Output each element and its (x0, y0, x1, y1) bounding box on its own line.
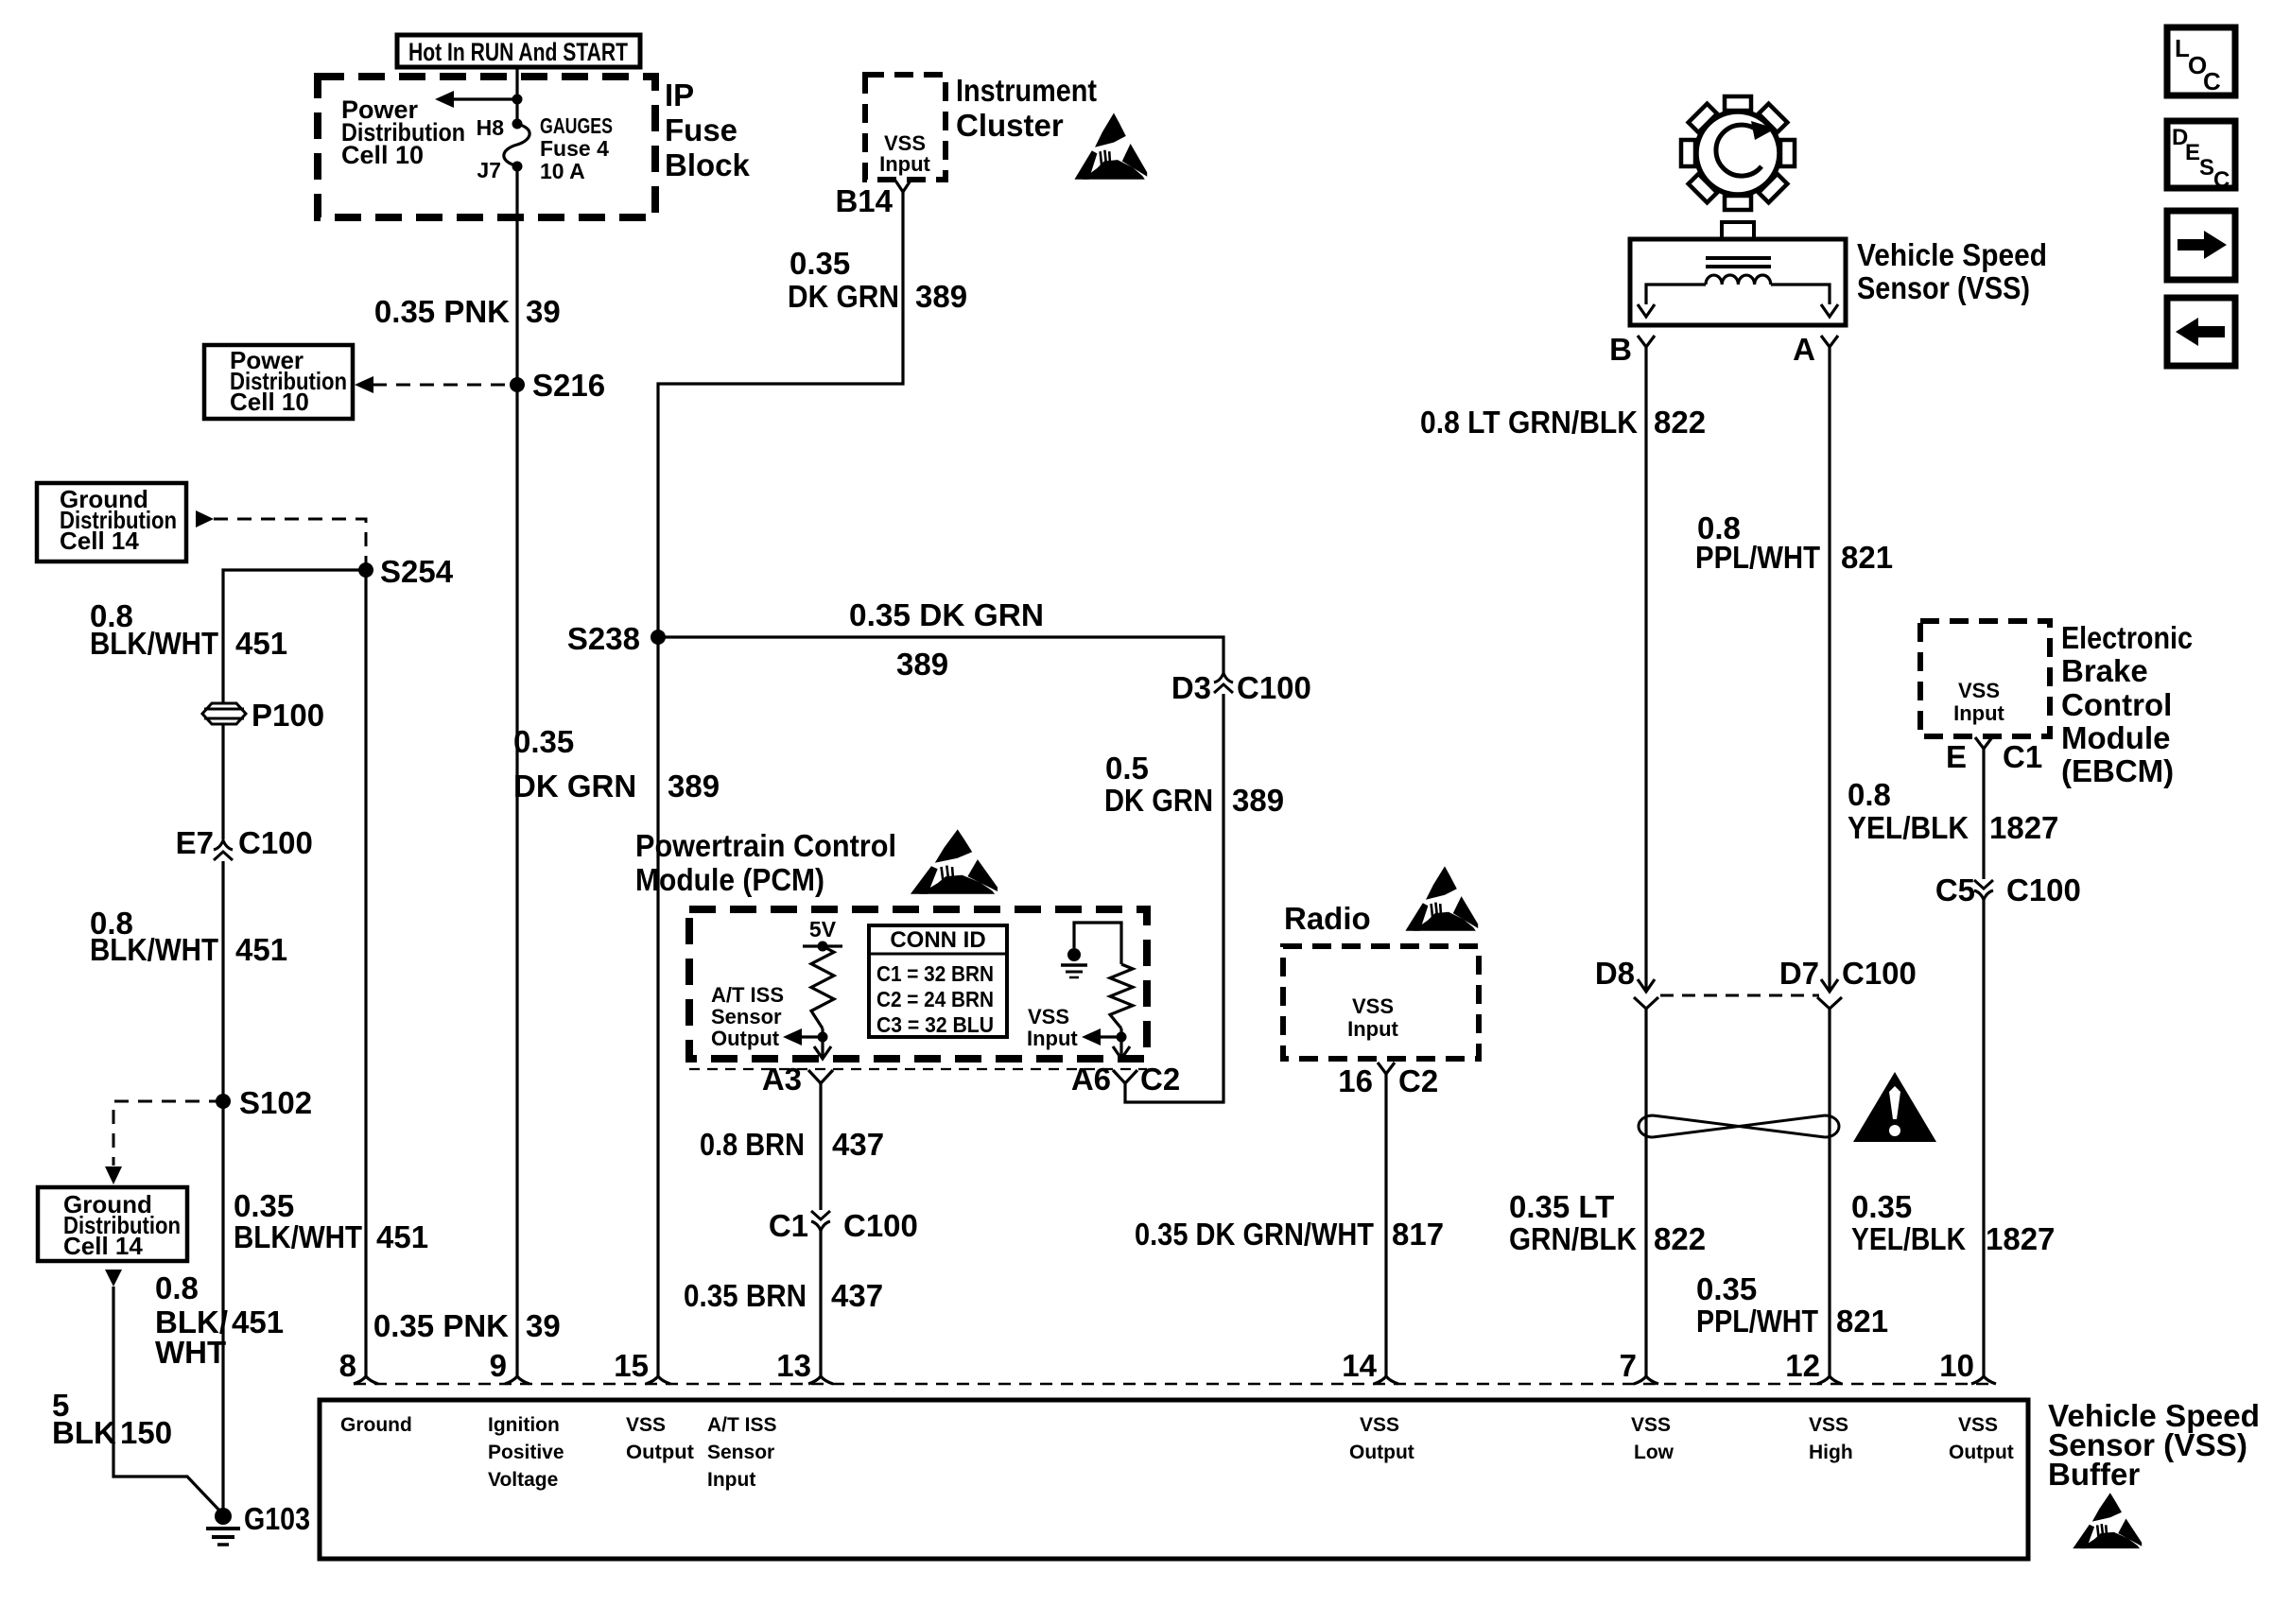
junction dot at fuse feed (512, 95, 523, 105)
pin A6 of PCM (1113, 1070, 1137, 1083)
reference box: Ground Distribution Cell 14 (upper) (37, 483, 186, 561)
svg-text:J7: J7 (477, 158, 501, 182)
wire and junction below pull-up (821, 1028, 824, 1058)
CONN ID box (869, 925, 1007, 1037)
wire 451: S254 down to buffer pin 8 (364, 570, 367, 1376)
svg-text:389: 389 (896, 647, 948, 682)
pin A of VSS (1821, 336, 1838, 347)
svg-text:C2: C2 (1398, 1063, 1438, 1098)
svg-text:D3: D3 (1171, 670, 1211, 705)
svg-text:822: 822 (1654, 1221, 1706, 1256)
wire 437 BRN: A3 to buffer pin 13 (819, 1083, 822, 1210)
svg-text:S254: S254 (380, 554, 454, 589)
svg-text:WHT: WHT (155, 1335, 226, 1370)
ESD symbol (PCM) (935, 829, 972, 862)
svg-text:437: 437 (832, 1127, 884, 1162)
svg-text:Input: Input (879, 152, 930, 176)
wire 0.5 DK GRN 389: D3 to PCM A6 (1125, 694, 1223, 1102)
svg-text:Input: Input (1347, 1017, 1398, 1041)
resistor (VSS input) (1110, 964, 1133, 1028)
svg-text:IP: IP (665, 78, 694, 112)
svg-text:Ignition: Ignition (488, 1414, 560, 1436)
svg-text:C5: C5 (1935, 872, 1975, 907)
VSS sensor core lines (1706, 256, 1771, 260)
svg-text:10: 10 (1939, 1348, 1974, 1383)
splice S238 (651, 630, 666, 645)
svg-text:Block: Block (665, 147, 751, 182)
reference box: Power Distribution Cell 10 (204, 345, 353, 419)
svg-text:12: 12 (1785, 1348, 1820, 1383)
svg-text:VSS: VSS (1958, 679, 2000, 702)
gear / reluctor wheel icon (1696, 112, 1779, 195)
svg-text:B: B (1609, 332, 1632, 367)
svg-text:C1: C1 (2003, 739, 2042, 774)
svg-text:Sensor: Sensor (707, 1442, 774, 1463)
svg-text:0.8: 0.8 (1848, 777, 1891, 812)
Radio dashed box (1283, 946, 1479, 1059)
svg-text:C100: C100 (1237, 670, 1311, 705)
svg-text:150: 150 (120, 1415, 172, 1450)
svg-text:Ground: Ground (340, 1414, 412, 1436)
svg-text:0.5: 0.5 (1105, 751, 1149, 786)
svg-text:Buffer: Buffer (2048, 1457, 2140, 1492)
svg-text:451: 451 (232, 1304, 284, 1339)
svg-text:0.35: 0.35 (513, 724, 574, 759)
Instrument Cluster dashed box (865, 75, 946, 180)
svg-text:451: 451 (235, 626, 287, 661)
svg-text:16: 16 (1338, 1063, 1373, 1098)
svg-text:822: 822 (1654, 405, 1706, 440)
svg-text:Fuse: Fuse (665, 112, 737, 147)
svg-text:Output: Output (626, 1442, 694, 1463)
IP Fuse Block dashed box (318, 77, 655, 217)
svg-text:C1 = 32 BRN: C1 = 32 BRN (876, 961, 994, 986)
back arrow box (2167, 298, 2235, 366)
arrow to VSS Input (PCM) (1099, 1035, 1121, 1038)
wire 389: S238 down to buffer pin 15 (656, 637, 659, 1376)
svg-text:C: C (2203, 67, 2221, 95)
wire 150 BLK from ground cell (105, 1270, 122, 1287)
svg-text:VSS: VSS (1360, 1414, 1399, 1436)
ground G103 (215, 1508, 232, 1525)
svg-text:B14: B14 (835, 183, 893, 218)
buffer connector face dashed line (354, 1383, 1996, 1386)
svg-text:DK GRN: DK GRN (788, 279, 899, 314)
svg-text:Module: Module (2061, 720, 2170, 755)
svg-text:VSS: VSS (1352, 994, 1394, 1018)
svg-text:Low: Low (1634, 1442, 1674, 1463)
svg-text:Radio: Radio (1284, 901, 1371, 936)
svg-text:1827: 1827 (1989, 810, 2058, 845)
svg-text:13: 13 (776, 1348, 811, 1383)
svg-text:A3: A3 (762, 1062, 802, 1097)
svg-text:D8: D8 (1595, 956, 1635, 991)
svg-text:P100: P100 (252, 698, 324, 733)
svg-text:CONN ID: CONN ID (890, 927, 985, 953)
VSS sensor box (1630, 239, 1846, 325)
connector E7 C100 (214, 840, 233, 850)
svg-text:Sensor (VSS): Sensor (VSS) (1857, 270, 2030, 305)
svg-text:Instrument: Instrument (956, 73, 1097, 108)
svg-text:39: 39 (526, 1308, 561, 1343)
svg-text:C1: C1 (769, 1208, 808, 1243)
forward arrow box (2167, 211, 2235, 280)
svg-text:S238: S238 (567, 621, 640, 656)
warning triangle (1853, 1072, 1936, 1142)
svg-text:C: C (2213, 167, 2230, 193)
svg-text:A6: A6 (1071, 1062, 1111, 1097)
svg-text:389: 389 (668, 769, 720, 803)
svg-text:7: 7 (1620, 1348, 1637, 1383)
pin 16 C2 of Radio (1378, 1063, 1395, 1074)
wire 389 DK GRN: B14 to S238 (658, 192, 903, 635)
splice S216 with dashed tap (373, 384, 517, 387)
wire 822 LT GRN/BLK: VSS B to C100 D8 (1644, 347, 1647, 992)
svg-text:VSS: VSS (1958, 1414, 1998, 1436)
arrow to PCM edge (A3) (814, 1046, 831, 1059)
svg-text:Cluster: Cluster (956, 108, 1064, 143)
svg-text:0.35 DK GRN: 0.35 DK GRN (849, 597, 1044, 632)
svg-text:8: 8 (339, 1348, 356, 1383)
svg-text:15: 15 (614, 1348, 649, 1383)
pin E C1 of EBCM (1975, 737, 1992, 749)
svg-text:Input: Input (707, 1469, 755, 1491)
svg-text:C100: C100 (2006, 872, 2081, 907)
wire 451 BLK/WHT: S254 left and down (223, 570, 366, 839)
svg-text:G103: G103 (244, 1501, 310, 1536)
Vehicle Speed Sensor Buffer box (320, 1400, 2028, 1559)
svg-text:0.35: 0.35 (1851, 1189, 1912, 1224)
svg-text:Hot In RUN And START: Hot In RUN And START (408, 38, 628, 66)
connector C1 C100 (A3 wire) (811, 1211, 830, 1219)
svg-text:C3 = 32 BLU: C3 = 32 BLU (876, 1012, 994, 1037)
wire 821 below C100 to buffer pin 12 (1817, 997, 1842, 1009)
svg-text:Output: Output (711, 1027, 780, 1050)
svg-text:S: S (2199, 155, 2214, 181)
svg-text:C100: C100 (1842, 956, 1917, 991)
svg-text:VSS: VSS (1028, 1005, 1069, 1028)
wire 1827 to buffer pin 10 (1982, 900, 1985, 1376)
svg-text:E7: E7 (176, 825, 214, 860)
svg-text:Output: Output (1349, 1442, 1414, 1463)
reference box: Ground Distribution Cell 14 (lower) (38, 1187, 187, 1261)
svg-text:Input: Input (1953, 701, 2004, 725)
VSS sensor coil (1706, 275, 1771, 285)
svg-text:BLK/WHT: BLK/WHT (234, 1219, 362, 1254)
svg-text:14: 14 (1342, 1348, 1377, 1383)
in-line connector P100 (202, 703, 246, 724)
svg-text:H8: H8 (477, 115, 505, 140)
svg-text:Positive: Positive (488, 1442, 564, 1463)
svg-text:BLK/WHT: BLK/WHT (90, 626, 218, 661)
svg-text:10 A: 10 A (540, 159, 585, 183)
svg-text:C100: C100 (238, 825, 313, 860)
svg-text:YEL/BLK: YEL/BLK (1848, 810, 1969, 845)
svg-text:Vehicle Speed: Vehicle Speed (1857, 237, 2047, 272)
svg-text:Fuse 4: Fuse 4 (540, 136, 609, 161)
svg-text:817: 817 (1392, 1217, 1444, 1252)
svg-text:BLK: BLK (52, 1415, 116, 1450)
pin A3 of PCM (808, 1070, 833, 1083)
svg-text:437: 437 (831, 1278, 883, 1313)
LOC reference box (2167, 27, 2235, 95)
svg-text:Cell 14: Cell 14 (60, 527, 139, 555)
wire: PCM ground to resistor (1074, 923, 1121, 964)
PCM dashed box (689, 909, 1147, 1059)
splice S254 (358, 562, 373, 578)
svg-text:0.35 PNK: 0.35 PNK (373, 1308, 509, 1343)
wire: hot feed into fuse (515, 67, 518, 124)
connector D3 C100 (1214, 673, 1233, 682)
svg-text:Powertrain Control: Powertrain Control (635, 828, 896, 863)
svg-text:0.35 BRN: 0.35 BRN (684, 1278, 807, 1313)
svg-text:GAUGES: GAUGES (540, 113, 613, 138)
svg-text:Sensor: Sensor (711, 1005, 782, 1028)
svg-text:389: 389 (915, 279, 967, 314)
svg-text:Voltage: Voltage (488, 1469, 558, 1491)
svg-text:E: E (1946, 739, 1967, 774)
svg-text:DK GRN: DK GRN (513, 769, 636, 803)
splice S102 with dashed tap (113, 1101, 223, 1166)
svg-text:High: High (1809, 1442, 1853, 1463)
svg-text:821: 821 (1836, 1304, 1888, 1339)
svg-text:Cell 10: Cell 10 (230, 388, 309, 416)
fuse F4 GAUGES 10A (512, 119, 523, 130)
5V supply bar (803, 944, 842, 947)
svg-text:GRN/BLK: GRN/BLK (1509, 1221, 1637, 1256)
ESD symbol (Radio) (1426, 866, 1457, 899)
svg-text:S216: S216 (532, 368, 605, 403)
EBCM dashed box (1920, 621, 2050, 736)
svg-text:Control: Control (2061, 687, 2172, 722)
svg-text:PPL/WHT: PPL/WHT (1696, 1304, 1818, 1339)
arrow to A/T ISS Sensor Output (800, 1035, 823, 1038)
svg-text:D7: D7 (1779, 956, 1819, 991)
svg-text:C100: C100 (843, 1208, 918, 1243)
resistor (A/T ISS pull-up) (811, 946, 834, 1028)
svg-text:0.35 PNK: 0.35 PNK (374, 294, 510, 329)
ESD symbol (instrument cluster) (1095, 113, 1126, 147)
svg-text:Cell 10: Cell 10 (341, 141, 424, 169)
svg-text:0.35: 0.35 (234, 1188, 294, 1223)
connector C5 C100 (1974, 880, 1993, 889)
svg-text:A/T ISS: A/T ISS (711, 983, 784, 1007)
wire 817: Radio to buffer pin 14 (1384, 1074, 1387, 1376)
C100 pass-through dashed link (1660, 994, 1819, 997)
svg-text:(EBCM): (EBCM) (2061, 753, 2174, 788)
wire 389: S238 right to D3 (658, 637, 1223, 673)
svg-text:389: 389 (1232, 783, 1284, 818)
arrow to PCM edge (A6) (1113, 1046, 1130, 1059)
svg-text:VSS: VSS (626, 1414, 666, 1436)
svg-text:A: A (1793, 332, 1815, 367)
reference box: Hot In RUN And START (397, 35, 640, 67)
svg-text:Module (PCM): Module (PCM) (635, 862, 824, 897)
svg-text:0.8 BRN: 0.8 BRN (700, 1127, 805, 1162)
wire 39 PNK: J7 down to buffer pin 9 (515, 166, 518, 1376)
svg-text:Electronic: Electronic (2061, 620, 2193, 655)
svg-text:VSS: VSS (1631, 1414, 1671, 1436)
svg-text:Cell 14: Cell 14 (63, 1232, 143, 1260)
wire 821 PPL/WHT: VSS A to C100 D7 (1828, 347, 1831, 992)
wire 451: E7 to G103 (221, 861, 224, 1516)
twisted pair symbol (1639, 1115, 1839, 1137)
svg-text:A/T ISS: A/T ISS (707, 1414, 777, 1436)
svg-text:DK GRN: DK GRN (1104, 783, 1213, 818)
dashed wire: ground distribution to S254 (196, 510, 214, 527)
svg-text:S102: S102 (239, 1085, 312, 1120)
svg-text:Output: Output (1949, 1442, 2014, 1463)
svg-text:C2 = 24 BRN: C2 = 24 BRN (876, 987, 994, 1011)
svg-text:Input: Input (1027, 1027, 1078, 1050)
svg-text:0.8 LT GRN/BLK: 0.8 LT GRN/BLK (1420, 405, 1638, 440)
svg-text:0.35: 0.35 (789, 246, 850, 281)
svg-text:9: 9 (490, 1348, 507, 1383)
svg-text:0.8: 0.8 (155, 1270, 199, 1305)
svg-text:YEL/BLK: YEL/BLK (1851, 1221, 1966, 1256)
svg-text:BLK/WHT: BLK/WHT (90, 932, 218, 967)
arrow: feed to power distribution (452, 97, 517, 100)
svg-text:5V: 5V (809, 917, 837, 942)
pin B of VSS (1638, 336, 1655, 347)
pin B14 of instrument cluster (895, 181, 911, 192)
svg-text:0.35 DK GRN/WHT: 0.35 DK GRN/WHT (1135, 1217, 1374, 1252)
svg-text:0.35: 0.35 (1696, 1271, 1757, 1306)
svg-text:39: 39 (526, 294, 561, 329)
svg-text:821: 821 (1841, 540, 1893, 575)
ESD symbol (buffer) (2092, 1493, 2122, 1521)
svg-text:1827: 1827 (1986, 1221, 2055, 1256)
wire 1827 YEL/BLK: EBCM E to C5 (1982, 749, 1985, 879)
svg-text:451: 451 (235, 932, 287, 967)
wire and junction below VSS resistor (1119, 1028, 1122, 1058)
svg-text:C2: C2 (1140, 1062, 1180, 1097)
VSS sensor internal wires (1646, 285, 1706, 304)
wire 822 below C100 to buffer pin 7 (1634, 997, 1658, 1009)
PCM connector face dashed line (689, 1068, 1147, 1070)
DESC reference box (2167, 121, 2235, 188)
svg-text:Brake: Brake (2061, 653, 2148, 688)
svg-text:E: E (2185, 140, 2200, 165)
ground symbol (PCM internal) (1067, 948, 1081, 961)
svg-text:451: 451 (376, 1219, 428, 1254)
svg-text:PPL/WHT: PPL/WHT (1695, 540, 1820, 575)
svg-text:0.35 LT: 0.35 LT (1509, 1189, 1614, 1224)
svg-text:VSS: VSS (1809, 1414, 1848, 1436)
